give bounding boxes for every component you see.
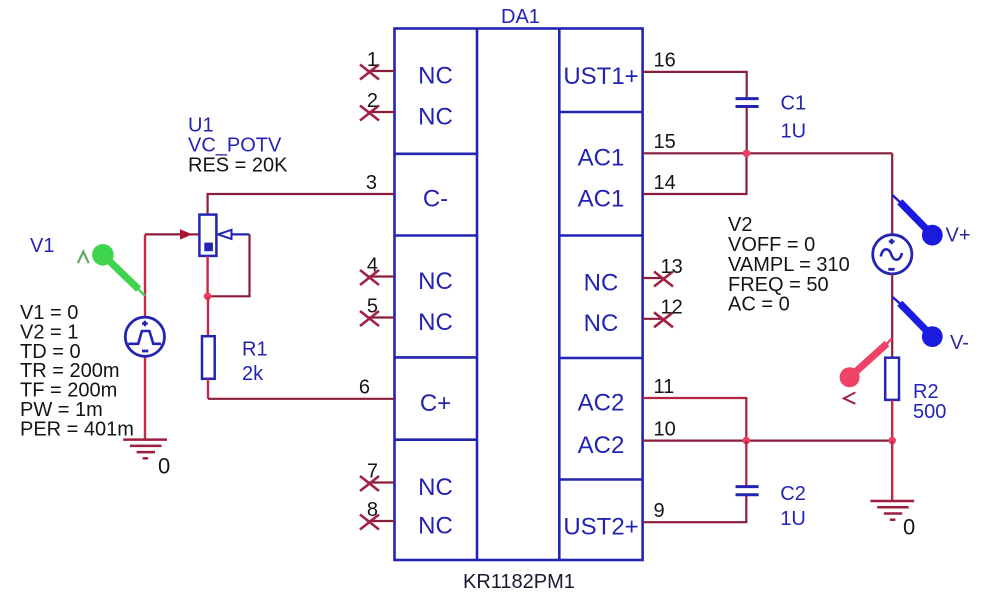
svg-text:16: 16 <box>654 50 676 72</box>
capacitor C2 <box>736 487 759 495</box>
V1 parameter text block <box>20 302 134 440</box>
pin 5 stub wire <box>369 316 395 318</box>
wire V1 top vertical <box>144 234 146 318</box>
wire pin16 to C1 top <box>643 72 747 98</box>
V2 plus sign <box>889 239 895 245</box>
wire C2 bottom to pin9 <box>643 496 747 522</box>
junction node R2/ground <box>888 437 896 445</box>
wire junction to ground (right) <box>891 441 893 501</box>
svg-text:NC: NC <box>418 474 453 501</box>
svg-text:V+: V+ <box>946 225 971 247</box>
svg-text:14: 14 <box>654 172 676 194</box>
svg-text:NC: NC <box>418 309 453 336</box>
capacitor C1 <box>736 99 759 107</box>
junction node at wiper/R1 <box>204 293 212 301</box>
svg-text:AC1: AC1 <box>578 185 625 212</box>
svg-text:UST2+: UST2+ <box>563 514 638 541</box>
svg-text:V-: V- <box>950 332 969 354</box>
no-connect cross pin 12 <box>654 312 673 327</box>
pin 7 stub wire <box>369 481 395 483</box>
wire potentiometer bottom lead <box>206 256 208 296</box>
svg-text:7: 7 <box>367 460 378 482</box>
svg-text:NC: NC <box>418 62 453 89</box>
wire pin14 up to junction <box>643 153 747 194</box>
svg-text:AC = 0: AC = 0 <box>728 294 790 316</box>
no-connect cross pin 2 <box>360 106 379 121</box>
wire pin3 to potentiometer top <box>208 194 395 215</box>
svg-text:9: 9 <box>654 500 665 522</box>
svg-text:VC_POTV: VC_POTV <box>188 135 282 157</box>
pin 4 stub wire <box>369 275 395 277</box>
svg-text:3: 3 <box>366 172 377 194</box>
svg-text:12: 12 <box>661 297 683 319</box>
wire pin11 down to C2 junction <box>643 398 747 441</box>
wire pin6 horizontal <box>208 398 395 400</box>
svg-text:8: 8 <box>367 499 378 521</box>
pin 1 stub wire <box>369 70 395 72</box>
svg-text:V1: V1 <box>30 235 54 257</box>
pin 13 stub wire <box>643 277 664 279</box>
green marker caret <box>78 252 89 264</box>
svg-text:15: 15 <box>654 131 676 153</box>
svg-text:6: 6 <box>359 377 370 399</box>
V2 parameter text block <box>728 214 850 316</box>
wire V1 bottom to ground <box>144 356 146 441</box>
no-connect cross pin 4 <box>360 270 379 285</box>
V1 pulse waveform symbol <box>128 331 161 344</box>
wire C1 bottom to junction <box>746 108 748 154</box>
no-connect cross pin 1 <box>360 65 379 80</box>
svg-text:NC: NC <box>418 103 453 130</box>
svg-text:1U: 1U <box>780 508 806 530</box>
IC DA1 outline <box>395 29 643 561</box>
pin 12 stub wire <box>643 318 664 320</box>
svg-text:2: 2 <box>367 90 378 112</box>
svg-text:C1: C1 <box>781 93 807 115</box>
svg-text:R1: R1 <box>242 339 268 361</box>
svg-text:2k: 2k <box>242 363 264 385</box>
pin 8 stub wire <box>369 520 395 522</box>
svg-text:NC: NC <box>584 269 619 296</box>
wire V2 top vertical <box>891 153 893 235</box>
voltage probe V1 (green) <box>92 244 145 296</box>
no-connect cross pin 8 <box>360 515 379 530</box>
svg-text:RES = 20K: RES = 20K <box>188 155 288 177</box>
resistor R1 body <box>202 336 215 379</box>
svg-text:VAMPL = 310: VAMPL = 310 <box>728 254 850 276</box>
no-connect cross pin 5 <box>360 311 379 326</box>
svg-text:VOFF = 0: VOFF = 0 <box>728 234 815 256</box>
svg-text:AC1: AC1 <box>578 145 625 172</box>
wire R1 bottom <box>207 379 209 399</box>
wire pin15 to V2 branch <box>643 152 893 154</box>
wire junction to C2 top <box>745 441 747 486</box>
wire pin10 horizontal <box>643 440 893 442</box>
potentiometer U1 wiper lead <box>232 233 250 235</box>
ground 0 (right) <box>870 501 914 520</box>
svg-text:AC2: AC2 <box>578 432 625 459</box>
potentiometer U1 left arrow <box>180 229 193 239</box>
potentiometer U1 inner square <box>204 243 213 252</box>
svg-text:5: 5 <box>367 295 378 317</box>
svg-text:500: 500 <box>913 401 946 423</box>
junction node C1/pin15 <box>743 150 751 158</box>
pulse source V1 circle <box>125 317 164 356</box>
wire V2 bottom to R2 <box>891 274 893 358</box>
V2 minus sign <box>888 268 894 271</box>
wire left terminal of potentiometer <box>145 233 181 235</box>
potentiometer U1 body <box>199 215 216 256</box>
V1 plus sign <box>142 321 148 327</box>
svg-text:11: 11 <box>654 376 675 398</box>
no-connect cross pin 7 <box>360 476 379 491</box>
pin 2 stub wire <box>369 111 395 113</box>
svg-text:C2: C2 <box>780 483 806 505</box>
sine source V2 circle <box>873 235 912 274</box>
svg-text:10: 10 <box>654 418 676 440</box>
svg-text:UST1+: UST1+ <box>563 63 638 90</box>
ground 0 (left) <box>123 440 167 459</box>
svg-text:DA1: DA1 <box>501 6 540 28</box>
svg-text:4: 4 <box>367 254 378 276</box>
potentiometer U1 wiper arrow <box>218 230 232 239</box>
no-connect cross pin 13 <box>654 272 673 287</box>
voltage probe V+ (blue) <box>892 195 942 246</box>
svg-text:1U: 1U <box>781 121 807 143</box>
junction node C2/pin10 <box>743 437 751 445</box>
wire R2 bottom to junction <box>891 400 893 441</box>
svg-text:PER = 401m: PER = 401m <box>20 418 134 440</box>
IC DA1 left column dividers <box>395 154 478 440</box>
current probe (red) <box>840 339 892 388</box>
V2 sine symbol <box>881 249 902 259</box>
svg-text:AC2: AC2 <box>578 389 625 416</box>
current probe marker < <box>844 392 856 403</box>
svg-text:U1: U1 <box>188 115 214 137</box>
svg-text:NC: NC <box>418 268 453 295</box>
resistor R2 body <box>885 358 899 400</box>
V1 minus sign <box>142 350 148 353</box>
wire wiper to bottom junction <box>208 234 250 296</box>
svg-text:R2: R2 <box>913 381 939 403</box>
svg-text:0: 0 <box>903 515 915 540</box>
potentiometer U1 left arrow lead <box>190 233 200 235</box>
svg-text:NC: NC <box>418 512 453 539</box>
svg-text:C-: C- <box>423 185 448 212</box>
svg-text:KR1182PM1: KR1182PM1 <box>463 571 575 593</box>
svg-text:1: 1 <box>367 49 378 71</box>
svg-text:V2: V2 <box>728 214 752 236</box>
svg-text:0: 0 <box>158 453 170 478</box>
svg-text:13: 13 <box>661 256 683 278</box>
svg-text:C+: C+ <box>420 390 451 417</box>
IC DA1 right column dividers <box>559 112 642 480</box>
voltage probe V- (blue) <box>892 297 942 347</box>
wire R1 top <box>207 296 209 336</box>
svg-text:NC: NC <box>584 310 619 337</box>
